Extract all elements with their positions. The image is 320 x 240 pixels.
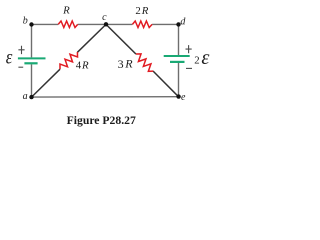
svg-text:3R: 3R	[118, 57, 134, 72]
svg-text:c: c	[102, 12, 107, 23]
svg-text:d: d	[180, 16, 186, 27]
svg-text:e: e	[181, 92, 186, 103]
svg-text:Figure P28.27: Figure P28.27	[67, 114, 136, 127]
svg-text:2: 2	[194, 55, 199, 67]
svg-text:4R: 4R	[76, 60, 89, 72]
svg-text:a: a	[23, 91, 28, 102]
svg-text:2R: 2R	[135, 5, 148, 17]
svg-text:R: R	[62, 5, 70, 17]
svg-text:ε: ε	[201, 47, 209, 69]
svg-text:b: b	[23, 15, 28, 26]
svg-text:ε: ε	[6, 47, 13, 69]
